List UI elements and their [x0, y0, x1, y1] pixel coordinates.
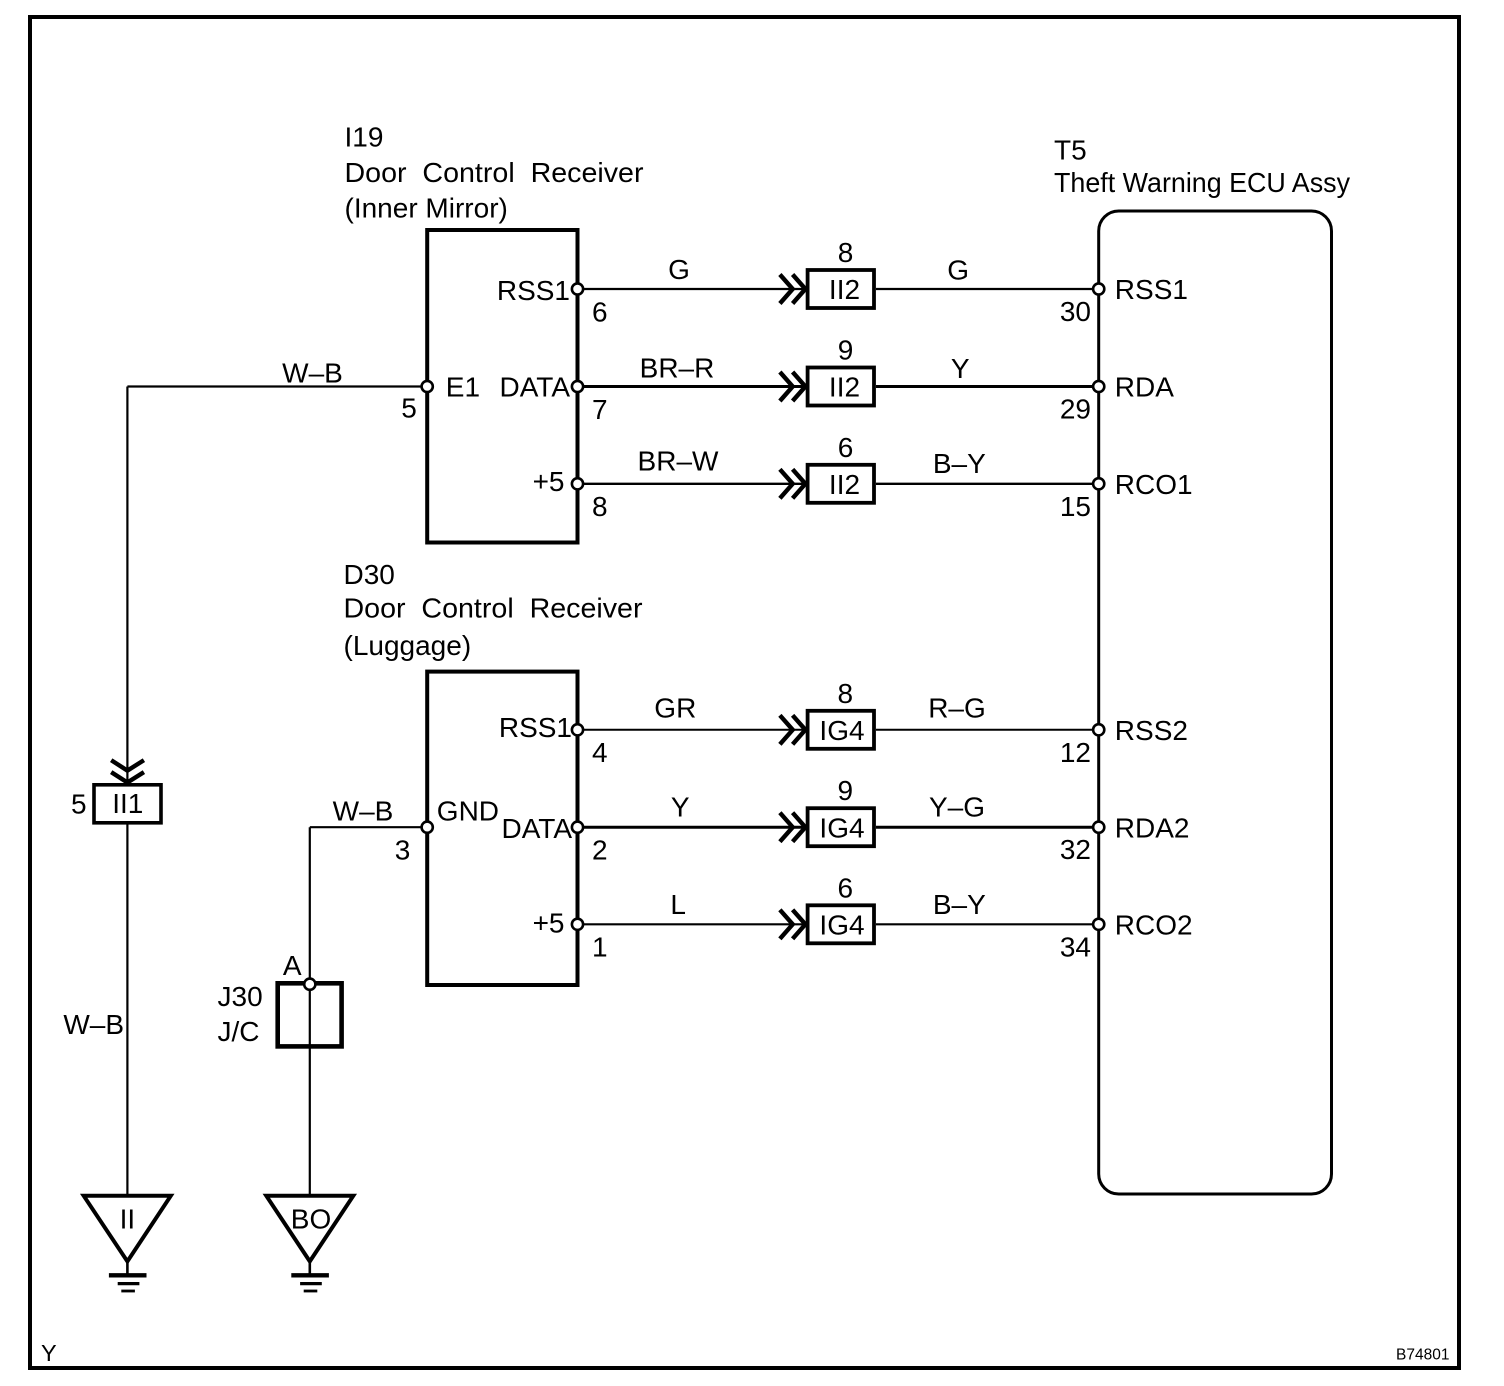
svg-text:L: L	[670, 889, 686, 920]
wire down to junction connector J30 node A	[309, 827, 311, 984]
svg-text:B–Y: B–Y	[933, 889, 986, 920]
svg-text:R–G: R–G	[928, 692, 986, 723]
svg-text:G: G	[947, 254, 969, 285]
wire Y from D30 pin to connector IG4	[578, 826, 806, 829]
svg-text:3: 3	[395, 835, 411, 866]
wire W-B from D30 pin GND going left	[310, 826, 427, 828]
svg-text:RSS2: RSS2	[1115, 715, 1188, 746]
svg-text:II: II	[120, 1204, 136, 1235]
svg-text:5: 5	[71, 789, 87, 820]
D30 pin 4 (RSS1)	[499, 712, 608, 768]
ground II (triangle + hatches)	[84, 1196, 171, 1291]
connector IG4 pin 6 (row L)	[780, 872, 874, 943]
connector II2 pin 9 (row BR-R)	[780, 335, 874, 406]
svg-text:W–B: W–B	[333, 796, 394, 827]
svg-text:6: 6	[592, 296, 608, 327]
I19 pin 5 (E1)	[401, 372, 480, 424]
svg-text:Theft Warning ECU Assy: Theft Warning ECU Assy	[1054, 167, 1350, 198]
connector II1 pin 5 with double chevron	[71, 760, 161, 823]
svg-text:Y: Y	[951, 353, 970, 384]
wire Y from connector II2 to ECU	[876, 385, 1099, 388]
connector IG4 pin 9 (row Y)	[780, 775, 874, 846]
ECU T5 pin 15 (RCO1)	[1060, 469, 1193, 522]
svg-text:II1: II1	[112, 788, 143, 819]
door control receiver D30 (luggage) box	[427, 672, 577, 985]
svg-text:Door Control Receiver: Door Control Receiver	[345, 157, 644, 188]
svg-text:Y: Y	[41, 1340, 57, 1366]
wire GR from D30 pin to connector IG4	[578, 729, 806, 731]
svg-text:7: 7	[592, 394, 608, 425]
svg-text:DATA: DATA	[501, 813, 572, 844]
D30 pin 3 (GND)	[395, 796, 499, 866]
wire G from I19 pin to connector II2	[578, 288, 806, 290]
component D30 title	[344, 559, 643, 661]
wire B-Y from connector IG4 to ECU	[876, 923, 1099, 925]
svg-text:W–B: W–B	[282, 357, 343, 388]
I19 pin 7 (DATA)	[499, 372, 607, 425]
svg-text:RSS1: RSS1	[499, 712, 572, 743]
svg-text:B74801: B74801	[1396, 1347, 1449, 1364]
junction connector J30 J/C	[218, 981, 342, 1047]
svg-text:5: 5	[401, 393, 417, 424]
svg-text:II2: II2	[829, 372, 860, 403]
svg-text:RCO2: RCO2	[1115, 910, 1193, 941]
svg-text:2: 2	[592, 835, 608, 866]
connector IG4 pin 8 (row GR)	[780, 678, 874, 749]
svg-text:B–Y: B–Y	[933, 448, 986, 479]
svg-text:BR–R: BR–R	[640, 353, 715, 384]
connector II2 pin 8 (row G)	[780, 237, 874, 308]
svg-text:J30: J30	[218, 981, 263, 1012]
wire Y-G from connector IG4 to ECU	[876, 826, 1099, 829]
svg-text:RDA: RDA	[1115, 372, 1174, 403]
component I19 title	[345, 121, 644, 223]
svg-text:RDA2: RDA2	[1115, 812, 1190, 843]
svg-text:IG4: IG4	[819, 812, 864, 843]
svg-text:BR–W: BR–W	[638, 446, 719, 477]
wire R-G from connector IG4 to ECU	[876, 729, 1099, 731]
svg-text:T5: T5	[1054, 134, 1087, 165]
svg-text:6: 6	[838, 872, 854, 903]
svg-text:E1: E1	[446, 372, 480, 403]
svg-text:RCO1: RCO1	[1115, 469, 1193, 500]
svg-text:DATA: DATA	[499, 372, 570, 403]
svg-text:I19: I19	[345, 121, 384, 152]
svg-text:34: 34	[1060, 931, 1091, 962]
svg-text:1: 1	[592, 932, 608, 963]
svg-text:32: 32	[1060, 834, 1091, 865]
wire L from D30 pin to connector IG4	[578, 923, 806, 925]
wire BR-R from I19 pin to connector II2	[578, 385, 806, 388]
wire W-B down to connector II1	[126, 387, 128, 784]
D30 pin 2 (DATA)	[501, 813, 607, 866]
svg-text:GND: GND	[437, 796, 499, 827]
svg-text:W–B: W–B	[63, 1009, 124, 1040]
svg-text:IG4: IG4	[819, 715, 864, 746]
svg-text:(Luggage): (Luggage)	[344, 630, 472, 661]
wire through J30 down to ground BO	[309, 984, 311, 1196]
svg-text:4: 4	[592, 737, 608, 768]
svg-text:Y: Y	[671, 791, 690, 822]
ECU T5 pin 12 (RSS2)	[1060, 715, 1188, 768]
svg-text:6: 6	[838, 432, 854, 463]
ground BO (triangle + hatches)	[266, 1196, 353, 1291]
svg-text:Y–G: Y–G	[929, 791, 985, 822]
svg-text:BO: BO	[291, 1204, 331, 1235]
svg-text:8: 8	[592, 491, 608, 522]
svg-text:29: 29	[1060, 394, 1091, 425]
node A on J30	[283, 950, 316, 990]
svg-text:J/C: J/C	[218, 1016, 260, 1047]
svg-text:9: 9	[838, 775, 854, 806]
theft warning ECU assy T5 box	[1099, 211, 1332, 1194]
svg-text:II2: II2	[829, 274, 860, 305]
svg-text:8: 8	[838, 678, 854, 709]
svg-text:RSS1: RSS1	[1115, 274, 1188, 305]
svg-text:RSS1: RSS1	[497, 275, 570, 306]
ECU T5 pin 30 (RSS1)	[1060, 274, 1188, 327]
wire G from connector II2 to ECU	[876, 288, 1099, 290]
svg-text:12: 12	[1060, 737, 1091, 768]
connector II2 pin 6 (row BR-W)	[780, 432, 874, 503]
svg-text:(Inner Mirror): (Inner Mirror)	[345, 193, 508, 224]
wire W-B from connector II1 down to ground II	[126, 824, 128, 1196]
svg-text:30: 30	[1060, 296, 1091, 327]
svg-text:A: A	[283, 950, 302, 981]
wire W-B from I19 pin E1 going left	[127, 385, 427, 387]
svg-text:+5: +5	[533, 908, 565, 939]
svg-text:15: 15	[1060, 491, 1091, 522]
svg-text:IG4: IG4	[819, 910, 864, 941]
door control receiver I19 (inner mirror) box	[427, 230, 577, 543]
I19 pin 8 (+5)	[533, 466, 608, 522]
ECU T5 pin 34 (RCO2)	[1060, 910, 1193, 963]
wire B-Y from connector II2 to ECU	[876, 483, 1099, 485]
svg-text:Door Control Receiver: Door Control Receiver	[344, 592, 643, 623]
I19 pin 6 (RSS1)	[497, 275, 608, 327]
wire BR-W from I19 pin to connector II2	[578, 483, 806, 485]
ECU T5 pin 32 (RDA2)	[1060, 812, 1190, 865]
svg-text:II2: II2	[829, 469, 860, 500]
ECU T5 title	[1054, 134, 1350, 198]
svg-text:+5: +5	[533, 466, 565, 497]
svg-text:G: G	[668, 254, 690, 285]
svg-text:GR: GR	[654, 692, 696, 723]
svg-text:D30: D30	[344, 559, 395, 590]
svg-text:9: 9	[838, 335, 854, 366]
ECU T5 pin 29 (RDA)	[1060, 372, 1174, 425]
svg-text:8: 8	[838, 237, 854, 268]
D30 pin 1 (+5)	[533, 908, 608, 963]
